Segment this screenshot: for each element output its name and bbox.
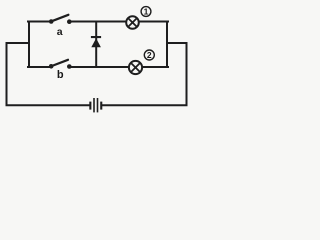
svg-text:2: 2 (147, 50, 152, 60)
svg-text:a: a (57, 26, 63, 38)
svg-text:b: b (57, 69, 64, 81)
svg-text:1: 1 (144, 7, 149, 17)
